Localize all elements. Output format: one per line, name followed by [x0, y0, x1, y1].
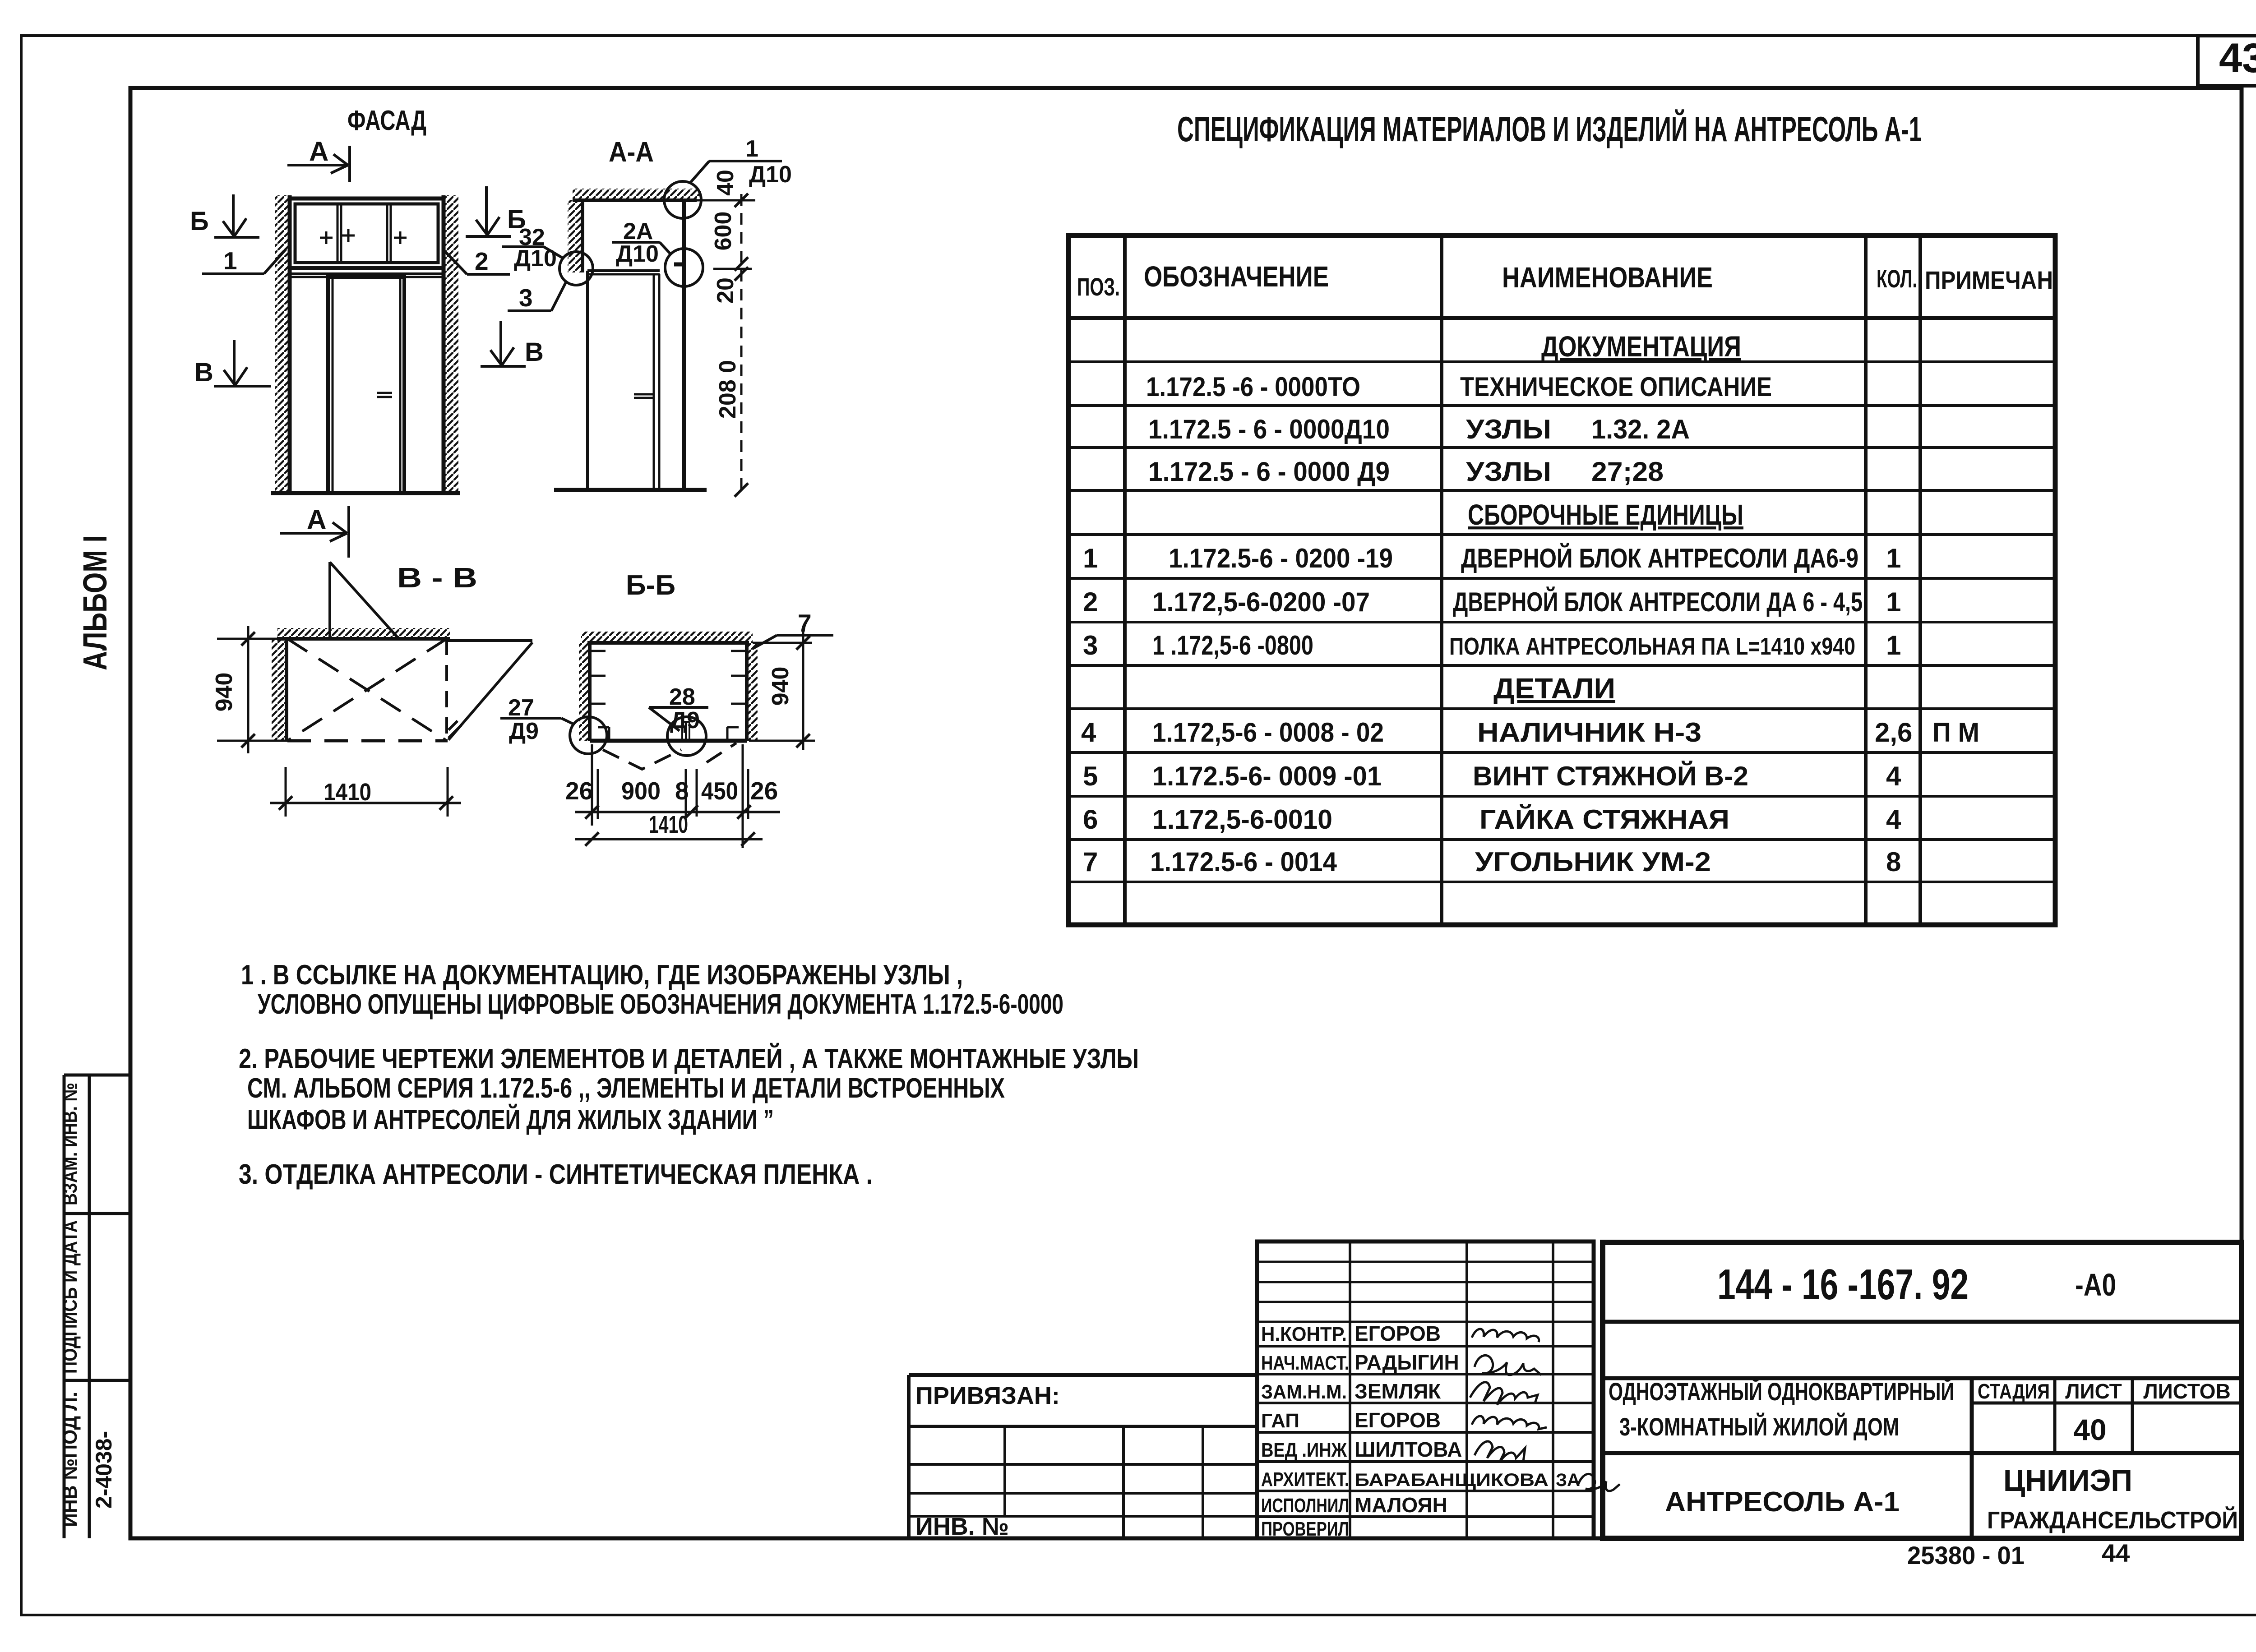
svg-text:ЛИСТ: ЛИСТ: [2065, 1380, 2122, 1403]
door top lines: [290, 272, 444, 275]
sig Егоров row4: [1472, 1416, 1547, 1429]
svg-text:ПОЗ.: ПОЗ.: [1077, 272, 1120, 301]
door top double line: [587, 269, 660, 272]
table outer box: [1068, 235, 2055, 925]
svg-text:27;28: 27;28: [1591, 457, 1664, 487]
svg-text:ИНВ №ПОД Л.: ИНВ №ПОД Л.: [59, 1392, 81, 1527]
svg-text:ГРАЖДАНСЕЛЬСТРОЙ: ГРАЖДАНСЕЛЬСТРОЙ: [1987, 1506, 2238, 1534]
ceiling hatch: [573, 189, 701, 200]
svg-text:1.32. 2А: 1.32. 2А: [1591, 414, 1690, 444]
dashed diagonal right: [707, 743, 736, 762]
svg-text:ЕГОРОВ: ЕГОРОВ: [1355, 1322, 1441, 1345]
inner top line: [590, 650, 606, 652]
bottom line: [590, 739, 747, 743]
callout 1/Д10 top: [689, 161, 782, 184]
svg-text:2,6: 2,6: [1875, 717, 1912, 748]
svg-text:1: 1: [1886, 543, 1901, 573]
svg-text:ВИНТ СТЯЖНОЙ В-2: ВИНТ СТЯЖНОЙ В-2: [1473, 761, 1748, 791]
svg-text:4: 4: [1886, 804, 1901, 835]
svg-text:АЛЬБОМ I: АЛЬБОМ I: [76, 535, 114, 670]
corner mark left: [598, 726, 609, 729]
section mark В left: [214, 340, 271, 386]
left wall line: [285, 639, 288, 741]
svg-text:ГАЙКА СТЯЖНАЯ: ГАЙКА СТЯЖНАЯ: [1479, 804, 1729, 835]
svg-text:ИСПОЛНИЛ: ИСПОЛНИЛ: [1261, 1495, 1349, 1517]
floor line: [554, 488, 707, 492]
LEFT-SIDEBAR: [64, 1075, 130, 1538]
svg-text:1.172.5 - 6 - 0000 Д9: 1.172.5 - 6 - 0000 Д9: [1148, 457, 1390, 487]
sig Шилтова row5: [1475, 1441, 1525, 1462]
svg-text:1: 1: [745, 136, 758, 162]
section mark Б left: [214, 194, 259, 237]
right plane line: [682, 200, 686, 490]
svg-text:1.172.5 - 6 - 0000Д10: 1.172.5 - 6 - 0000Д10: [1148, 414, 1390, 444]
svg-text:СПЕЦИФИКАЦИЯ МАТЕРИАЛОВ И ИЗДЕ: СПЕЦИФИКАЦИЯ МАТЕРИАЛОВ И ИЗДЕЛИЙ НА АНТ…: [1177, 109, 1922, 149]
right wall hatch: [444, 195, 458, 493]
svg-text:ЗАМ.Н.М.: ЗАМ.Н.М.: [1261, 1381, 1347, 1403]
svg-text:В: В: [525, 337, 544, 367]
right flag: [448, 639, 532, 642]
left wall line: [581, 200, 584, 272]
callout 3: [508, 282, 566, 311]
svg-text:1: 1: [1886, 587, 1901, 617]
door frame left: [586, 271, 589, 490]
sig Радыгин row2: [1475, 1355, 1541, 1375]
svg-text:НАИМЕНОВАНИЕ: НАИМЕНОВАНИЕ: [1502, 261, 1713, 294]
svg-text:ВЗАМ. ИНВ. №: ВЗАМ. ИНВ. №: [59, 1083, 81, 1205]
svg-text:ШИЛТОВА: ШИЛТОВА: [1355, 1438, 1462, 1461]
svg-text:УЗЛЫ: УЗЛЫ: [1466, 457, 1551, 487]
shelf ticks right: [731, 675, 747, 677]
svg-text:ГАП: ГАП: [1261, 1410, 1299, 1432]
wall edge left: [288, 195, 292, 493]
vv dim 1410: [270, 767, 461, 817]
TABLE-TEXT: [1077, 260, 2053, 877]
antresol outer box: [290, 198, 444, 268]
NOTES: [239, 960, 1139, 1190]
callout 2: [444, 251, 510, 274]
antresol divider 1: [337, 204, 339, 263]
handle: [634, 393, 654, 396]
section mark A top: [287, 146, 350, 182]
svg-text:1.172,5-6 - 0008 - 02: 1.172,5-6 - 0008 - 02: [1152, 717, 1384, 748]
svg-text:КОЛ.: КОЛ.: [1877, 264, 1917, 293]
svg-text:1: 1: [1083, 543, 1098, 573]
left wall hatch: [272, 639, 287, 741]
svg-text:ЕГОРОВ: ЕГОРОВ: [1355, 1408, 1441, 1432]
signature table: [1257, 1241, 1594, 1538]
callout 2А/Д10: [612, 242, 671, 254]
svg-text:6: 6: [1083, 804, 1098, 835]
svg-text:БАРАБАНЩИКОВА: БАРАБАНЩИКОВА: [1355, 1470, 1549, 1490]
svg-text:2. РАБОЧИЕ ЧЕРТЕЖИ ЭЛЕМЕНТ: 2. РАБОЧИЕ ЧЕРТЕЖИ ЭЛЕМЕНТОВ И ДЕТАЛЕЙ ,…: [239, 1043, 1139, 1075]
svg-text:27: 27: [508, 695, 534, 721]
svg-text:ОБОЗНАЧЕНИЕ: ОБОЗНАЧЕНИЕ: [1144, 260, 1329, 293]
door handle: [377, 392, 392, 394]
svg-text:600: 600: [710, 212, 736, 251]
svg-text:2: 2: [475, 247, 489, 275]
left wall hatch: [579, 643, 590, 741]
svg-text:ЛИСТОВ: ЛИСТОВ: [2143, 1380, 2230, 1403]
svg-text:Н.КОНТР.: Н.КОНТР.: [1261, 1323, 1347, 1345]
table row lines: [1068, 316, 2055, 320]
svg-text:Б: Б: [190, 207, 209, 236]
svg-text:4: 4: [1886, 761, 1901, 791]
ceiling line: [573, 198, 697, 202]
node circle 1/Д10: [664, 181, 701, 218]
svg-text:ПРОВЕРИЛ: ПРОВЕРИЛ: [1261, 1518, 1349, 1540]
section mark Б right: [466, 186, 511, 236]
svg-text:2-4038-: 2-4038-: [91, 1431, 116, 1509]
vv dim 940: [217, 626, 287, 753]
corner mark right: [727, 726, 739, 729]
svg-text:Д10: Д10: [749, 162, 792, 188]
bb dims bottom: [575, 744, 780, 848]
svg-text:ОДНОЭТАЖНЫЙ ОДНОКВАРТИРНЫЙ: ОДНОЭТАЖНЫЙ ОДНОКВАРТИРНЫЙ: [1609, 1377, 1954, 1406]
BB-DRAWING: [570, 632, 758, 769]
node circle 27 left: [570, 717, 607, 754]
svg-text:44: 44: [2102, 1539, 2130, 1567]
svg-text:ПРИВЯЗАН:: ПРИВЯЗАН:: [915, 1382, 1060, 1409]
ceiling line: [587, 641, 749, 645]
VV-DRAWING: [272, 562, 532, 741]
svg-text:СБОРОЧНЫЕ ЕДИНИЦЫ: СБОРОЧНЫЕ ЕДИНИЦЫ: [1468, 498, 1743, 531]
aa dimension line: [684, 194, 755, 497]
svg-text:ПОДПИСЬ И ДАТА: ПОДПИСЬ И ДАТА: [59, 1220, 81, 1374]
dashed V left: [603, 750, 681, 769]
sig Егоров row1: [1472, 1329, 1539, 1342]
svg-text:Д10: Д10: [616, 241, 659, 267]
svg-text:А-А: А-А: [609, 137, 654, 168]
TITLE-BLOCK-TEXT: [915, 1260, 2238, 1569]
svg-text:1.172.5-6 - 0200 -19: 1.172.5-6 - 0200 -19: [1169, 543, 1393, 573]
svg-text:АРХИТЕКТ.: АРХИТЕКТ.: [1261, 1468, 1349, 1490]
svg-text:1.172,5-6-0010: 1.172,5-6-0010: [1152, 804, 1332, 835]
svg-text:1410: 1410: [649, 811, 688, 838]
svg-text:ТЕХНИЧЕСКОЕ ОПИСАНИЕ: ТЕХНИЧЕСКОЕ ОПИСАНИЕ: [1460, 372, 1772, 402]
privyazan box: [909, 1373, 1257, 1377]
AA-DRAWING: [554, 181, 707, 490]
svg-text:ДВЕРНОЙ БЛОК АНТРЕСОЛИ ДА 6 -: ДВЕРНОЙ БЛОК АНТРЕСОЛИ ДА 6 - 4,5: [1453, 587, 1863, 617]
svg-text:В: В: [194, 358, 213, 387]
main title box: [1603, 1242, 2242, 1538]
svg-text:СМ. АЛЬБОМ СЕРИЯ 1.172.5-6 ,: СМ. АЛЬБОМ СЕРИЯ 1.172.5-6 ,, ЭЛЕМЕНТЫ И…: [247, 1073, 1005, 1104]
svg-text:20: 20: [712, 277, 739, 304]
FASAD-DRAWING: [271, 195, 460, 493]
ceiling hatch: [277, 628, 450, 639]
cross diagonal 1: [287, 639, 447, 741]
sheet number box 43: [2198, 36, 2256, 86]
svg-text:3-КОМНАТНЫЙ ЖИЛОЙ ДОМ: 3-КОМНАТНЫЙ ЖИЛОЙ ДОМ: [1619, 1412, 1899, 1441]
section mark A bottom: [280, 506, 349, 558]
svg-text:5: 5: [1083, 761, 1098, 791]
svg-text:ИНВ. №: ИНВ. №: [915, 1513, 1009, 1540]
svg-text:28: 28: [669, 684, 695, 710]
left wall hatch: [568, 200, 582, 272]
svg-text:144 - 16 -167. 92: 144 - 16 -167. 92: [1717, 1260, 1969, 1309]
SPEC-TABLE: [1068, 235, 2055, 925]
svg-text:1410: 1410: [324, 779, 371, 806]
svg-text:ДВЕРНОЙ БЛОК АНТРЕСОЛИ ДА6-9: ДВЕРНОЙ БЛОК АНТРЕСОЛИ ДА6-9: [1461, 543, 1858, 573]
svg-text:7: 7: [798, 609, 812, 637]
wall edge right: [442, 195, 446, 493]
svg-text:ДЕТАЛИ: ДЕТАЛИ: [1493, 672, 1615, 705]
callout 27/Д9: [500, 718, 574, 724]
svg-text:900: 900: [621, 777, 661, 805]
node circle 2А/Д10: [665, 249, 703, 286]
svg-text:Д9: Д9: [509, 718, 539, 744]
svg-text:2: 2: [1083, 587, 1098, 617]
shelf ticks left: [590, 675, 606, 677]
svg-text:8: 8: [675, 777, 689, 805]
svg-text:А: А: [307, 504, 326, 535]
svg-text:НАЛИЧНИК Н-3: НАЛИЧНИК Н-3: [1477, 717, 1701, 748]
callout 1: [202, 249, 286, 274]
svg-text:208 0: 208 0: [715, 360, 741, 419]
section wedge triangle: [328, 562, 331, 639]
svg-text:П М: П М: [1932, 717, 1979, 748]
svg-text:УЗЛЫ: УЗЛЫ: [1466, 414, 1551, 444]
svg-text:1: 1: [1886, 630, 1901, 660]
svg-text:-А0: -А0: [2075, 1267, 2116, 1302]
bb dim 940 right: [749, 631, 815, 750]
svg-text:3. ОТДЕЛКА АНТРЕСОЛИ - СИНТЕ: 3. ОТДЕЛКА АНТРЕСОЛИ - СИНТЕТИЧЕСКАЯ ПЛЕ…: [239, 1159, 873, 1190]
svg-text:УГОЛЬНИК УМ-2: УГОЛЬНИК УМ-2: [1475, 847, 1711, 877]
svg-text:940: 940: [211, 673, 237, 712]
door leaf lines: [653, 274, 655, 490]
svg-text:3: 3: [519, 284, 533, 312]
TITLE-BLOCK: [909, 1241, 2242, 1538]
section mark В right: [481, 321, 526, 366]
svg-text:Д10: Д10: [514, 245, 557, 272]
sidebar box lines: [63, 1075, 66, 1538]
svg-text:Д9: Д9: [670, 707, 700, 734]
svg-text:1: 1: [223, 247, 237, 275]
svg-text:43: 43: [2219, 35, 2256, 81]
svg-text:940: 940: [767, 667, 794, 706]
svg-text:1.172,5-6-0200 -07: 1.172,5-6-0200 -07: [1152, 587, 1370, 617]
antresol divider 2: [386, 204, 388, 263]
svg-text:СТАДИЯ: СТАДИЯ: [1978, 1380, 2050, 1403]
svg-text:1.172.5 -6 - 0000ТО: 1.172.5 -6 - 0000ТО: [1146, 372, 1360, 402]
svg-text:ПОЛКА АНТРЕСОЛЬНАЯ ПА L=1410 x: ПОЛКА АНТРЕСОЛЬНАЯ ПА L=1410 x940: [1449, 633, 1855, 660]
svg-text:3: 3: [1083, 630, 1098, 660]
svg-text:ЗА: ЗА: [1556, 1470, 1580, 1490]
svg-text:ФАСАД: ФАСАД: [347, 105, 426, 136]
svg-text:ШКАФОВ И АНТРЕСОЛЕЙ ДЛЯ ЖИЛЫХ: ШКАФОВ И АНТРЕСОЛЕЙ ДЛЯ ЖИЛЫХ ЗДАНИИ ”: [247, 1104, 774, 1135]
plus marks: [320, 229, 407, 244]
svg-text:МАЛОЯН: МАЛОЯН: [1355, 1493, 1447, 1517]
antresol inner box: [295, 204, 438, 263]
svg-text:НАЧ.МАСТ.: НАЧ.МАСТ.: [1261, 1352, 1349, 1374]
svg-text:А: А: [309, 136, 328, 166]
svg-text:1.172.5-6- 0009 -01: 1.172.5-6- 0009 -01: [1152, 761, 1382, 791]
svg-text:ЗЕМЛЯК: ЗЕМЛЯК: [1355, 1380, 1441, 1403]
svg-text:РАДЫГИН: РАДЫГИН: [1355, 1351, 1459, 1374]
left wall line: [588, 643, 592, 741]
ceiling hatch: [581, 632, 753, 643]
svg-text:7: 7: [1083, 847, 1098, 877]
node circle 32/Д10: [502, 247, 593, 285]
svg-text:ЦНИИЭП: ЦНИИЭП: [2003, 1463, 2132, 1498]
right dashed: [445, 639, 448, 741]
right wall line: [745, 643, 749, 741]
sig Барабанщикова row6: [1578, 1474, 1620, 1491]
small corner hatch: [448, 721, 458, 730]
table column lines: [1123, 235, 1127, 925]
floor line: [271, 491, 460, 495]
ceiling line: [277, 637, 450, 641]
svg-text:1.172.5-6 - 0014: 1.172.5-6 - 0014: [1150, 847, 1337, 877]
svg-text:1 . В ССЫЛКЕ НА ДОКУМЕНТАЦ: 1 . В ССЫЛКЕ НА ДОКУМЕНТАЦИЮ, ГДЕ ИЗОБРА…: [241, 960, 963, 991]
svg-text:1 .172,5-6 -0800: 1 .172,5-6 -0800: [1152, 630, 1313, 660]
callout 7: [753, 635, 833, 649]
screw mark in circle: [681, 722, 683, 740]
svg-text:26: 26: [565, 777, 593, 805]
svg-text:АНТРЕСОЛЬ А-1: АНТРЕСОЛЬ А-1: [1665, 1486, 1900, 1518]
left wall hatch: [275, 195, 290, 493]
node circle 28 center: [667, 717, 706, 756]
svg-text:Б-Б: Б-Б: [626, 570, 675, 601]
svg-text:ВЕД .ИНЖ: ВЕД .ИНЖ: [1261, 1439, 1347, 1461]
svg-text:26: 26: [750, 777, 778, 805]
right wall hatch: [747, 643, 758, 741]
callout 28/Д9: [649, 707, 708, 731]
door leaf: [328, 277, 404, 493]
svg-text:В - В: В - В: [397, 563, 477, 594]
SIGNATURES (cursive squiggles): [1470, 1329, 1620, 1491]
sig Земляк row3: [1470, 1382, 1538, 1405]
svg-text:УСЛОВНО ОПУЩЕНЫ ЦИФРОВЫЕ ОБ: УСЛОВНО ОПУЩЕНЫ ЦИФРОВЫЕ ОБОЗНАЧЕНИЯ ДОК…: [258, 989, 1063, 1020]
svg-text:450: 450: [701, 777, 738, 805]
svg-text:4: 4: [1081, 717, 1096, 748]
svg-text:ПРИМЕЧАН: ПРИМЕЧАН: [1925, 266, 2053, 294]
svg-text:40: 40: [712, 170, 739, 196]
cross diagonal 2: [287, 639, 447, 741]
bottom dashed: [287, 739, 448, 743]
svg-text:25380 - 01: 25380 - 01: [1907, 1541, 2025, 1569]
svg-text:40: 40: [2073, 1413, 2106, 1446]
svg-text:ДОКУМЕНТАЦИЯ: ДОКУМЕНТАЦИЯ: [1541, 330, 1741, 363]
svg-text:8: 8: [1886, 847, 1901, 877]
